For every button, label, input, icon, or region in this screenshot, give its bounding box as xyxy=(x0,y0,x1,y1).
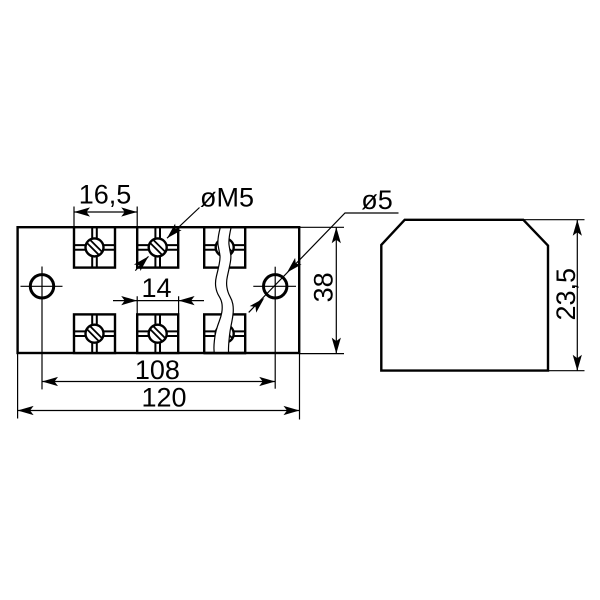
svg-text:120: 120 xyxy=(141,383,186,413)
screw T4 head xyxy=(86,325,104,343)
screw T2 head xyxy=(149,238,167,256)
mounting hole H2 (right, o5) xyxy=(253,267,296,389)
terminal block plate outline (front view) xyxy=(18,227,300,353)
terminal T2 box xyxy=(137,227,178,267)
dimension 108 xyxy=(42,355,275,386)
svg-text:16,5: 16,5 xyxy=(79,180,132,210)
dimension 23,5 xyxy=(524,220,585,371)
screw T5 head xyxy=(149,325,167,343)
screw T3 head xyxy=(216,238,234,256)
svg-text:108: 108 xyxy=(135,355,180,385)
mounting hole H1 (left, o5) xyxy=(21,267,63,390)
terminal T6 box xyxy=(204,314,245,353)
svg-text:38: 38 xyxy=(309,272,339,302)
terminal T3 box xyxy=(204,227,245,267)
terminal T1 box xyxy=(74,227,115,267)
screw T6 head xyxy=(216,325,234,343)
break line band xyxy=(214,227,233,354)
svg-text:øM5: øM5 xyxy=(200,183,254,213)
svg-text:23,5: 23,5 xyxy=(551,268,581,321)
dimension 38 xyxy=(300,227,344,353)
dimension 16,5 xyxy=(74,180,137,228)
terminal T5 box xyxy=(137,314,178,353)
dimension o5 leader xyxy=(249,185,399,313)
dimension 14 xyxy=(113,273,204,314)
plate edge over break xyxy=(204,227,246,353)
terminal T4 box xyxy=(74,314,115,353)
dimension oM5 leader xyxy=(134,183,254,271)
side view outline (chamfered block) xyxy=(381,220,548,371)
svg-text:ø5: ø5 xyxy=(361,185,393,215)
screw T1 head xyxy=(86,238,104,256)
svg-text:14: 14 xyxy=(141,273,171,303)
dimension 120 xyxy=(18,353,300,420)
